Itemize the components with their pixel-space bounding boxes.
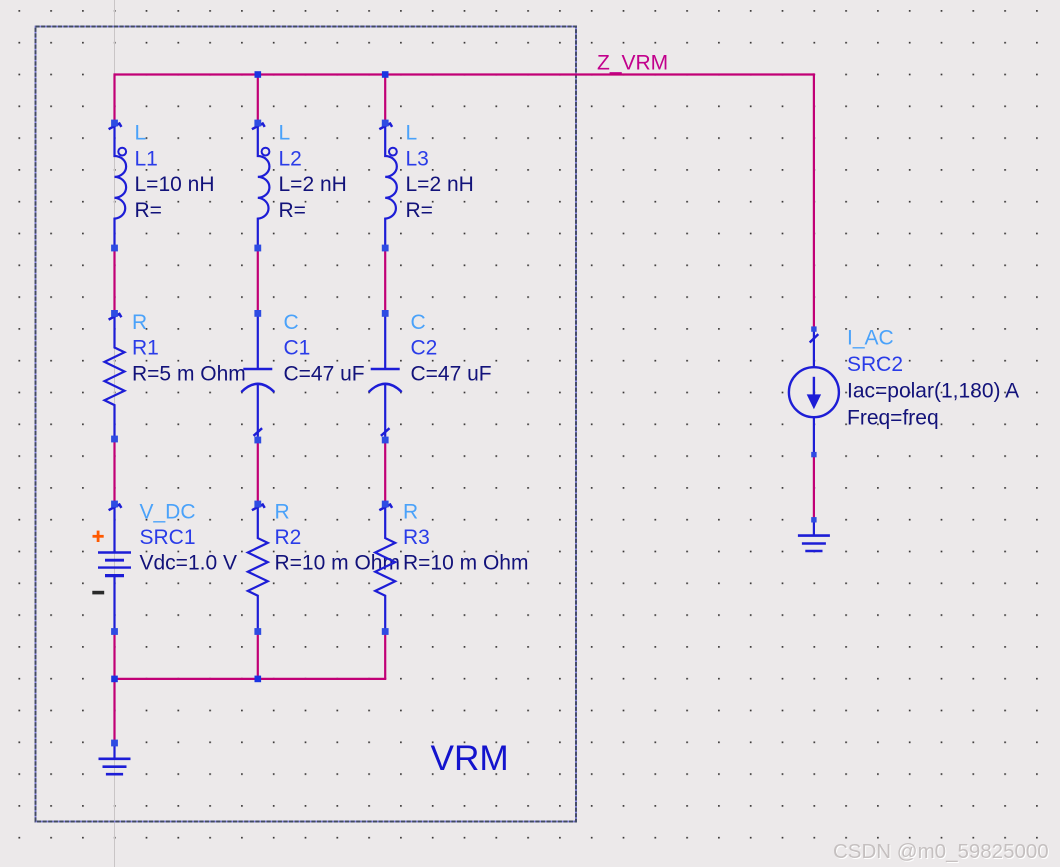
label R1 <box>132 311 246 385</box>
svg-text:L: L <box>135 122 147 145</box>
svg-text:R3: R3 <box>403 526 430 549</box>
wire colA bottom-ground <box>113 679 115 743</box>
svg-text:C: C <box>411 311 426 334</box>
ground GND2 <box>798 517 830 551</box>
capacitor C1 <box>241 310 274 443</box>
resistor R1 <box>105 310 125 442</box>
wire colC L3-C2 <box>384 248 386 313</box>
svg-text:R: R <box>403 500 418 523</box>
inductor L1 <box>109 120 127 252</box>
wire colC top drop <box>384 75 386 124</box>
junction colC top <box>382 71 389 78</box>
svg-text:L=2 nH: L=2 nH <box>279 173 347 196</box>
wire colB R2-bottom <box>257 632 259 679</box>
svg-text:R2: R2 <box>275 526 302 549</box>
wire colD SRC2-ground <box>813 455 815 520</box>
label R3 <box>403 500 528 574</box>
svg-text:L2: L2 <box>279 147 302 170</box>
DC voltage source SRC1 (V_DC) <box>98 501 131 635</box>
VRM dashed boundary box <box>36 27 577 822</box>
svg-text:L3: L3 <box>406 147 429 170</box>
wire colC C2-R3 <box>384 440 386 504</box>
svg-text:CSDN @m0_59825000: CSDN @m0_59825000 <box>833 840 1049 863</box>
wire colA L1-R1 <box>113 248 115 313</box>
sheet boundary line <box>114 0 116 867</box>
svg-text:I_AC: I_AC <box>847 327 894 350</box>
wire colA top drop <box>113 73 115 123</box>
wire bottom net <box>115 678 387 680</box>
svg-text:L: L <box>279 122 291 145</box>
resistor R2 <box>248 501 268 635</box>
label L2 <box>279 122 347 222</box>
svg-text:R: R <box>132 311 147 334</box>
wire colA SRC1-bottom <box>113 632 115 679</box>
svg-text:C=47 uF: C=47 uF <box>284 362 365 385</box>
junction colB bottom <box>255 676 262 683</box>
svg-text:Iac=polar(1,180) A: Iac=polar(1,180) A <box>847 380 1019 403</box>
svg-text:V_DC: V_DC <box>140 500 196 523</box>
wire colB C1-R2 <box>257 440 259 504</box>
svg-text:VRM: VRM <box>431 739 509 778</box>
junction colA bottom <box>111 676 118 683</box>
inductor L3 <box>379 120 397 252</box>
label R2 <box>275 500 400 574</box>
svg-text:R1: R1 <box>132 337 159 360</box>
wire colB top drop <box>257 75 259 124</box>
capacitor C2 <box>369 310 402 443</box>
svg-text:R=: R= <box>406 199 433 222</box>
ground GND1 <box>99 740 131 775</box>
svg-text:L=10 nH: L=10 nH <box>135 173 215 196</box>
wire colB L2-C1 <box>257 248 259 313</box>
wire colA R1-SRC1 <box>113 439 115 504</box>
svg-text:R=: R= <box>135 199 162 222</box>
svg-text:SRC1: SRC1 <box>140 526 196 549</box>
svg-text:SRC2: SRC2 <box>847 353 903 376</box>
wire colC R3-bottom <box>384 632 386 679</box>
svg-text:L: L <box>406 122 418 145</box>
resistor R3 <box>375 501 395 635</box>
svg-text:R=: R= <box>279 199 306 222</box>
svg-text:R: R <box>275 500 290 523</box>
wire colD top drop to SRC2 <box>813 73 815 329</box>
svg-text:C=47 uF: C=47 uF <box>411 362 492 385</box>
label SRC2 <box>847 327 1019 430</box>
svg-text:R=5 m Ohm: R=5 m Ohm <box>132 362 246 385</box>
svg-text:R=10 m Ohm: R=10 m Ohm <box>403 552 528 575</box>
AC current source SRC2 (I_AC) <box>789 326 839 457</box>
svg-text:Vdc=1.0 V: Vdc=1.0 V <box>140 552 237 575</box>
svg-text:L=2 nH: L=2 nH <box>406 173 474 196</box>
label SRC1 <box>140 500 237 574</box>
junction colB top <box>255 71 262 78</box>
svg-text:Freq=freq: Freq=freq <box>847 406 939 429</box>
svg-text:C1: C1 <box>284 337 311 360</box>
svg-text:L1: L1 <box>135 147 158 170</box>
svg-text:C: C <box>284 311 299 334</box>
label L3 <box>406 122 474 222</box>
label L1 <box>135 122 215 222</box>
label C1 <box>284 311 365 385</box>
label C2 <box>411 311 492 385</box>
inductor L2 <box>252 120 270 252</box>
svg-text:C2: C2 <box>411 337 438 360</box>
svg-text:Z_VRM: Z_VRM <box>597 51 668 74</box>
minus sign of SRC1 <box>92 591 104 595</box>
wire Z_VRM top net <box>115 73 814 75</box>
plus sign of SRC1 <box>93 531 104 542</box>
